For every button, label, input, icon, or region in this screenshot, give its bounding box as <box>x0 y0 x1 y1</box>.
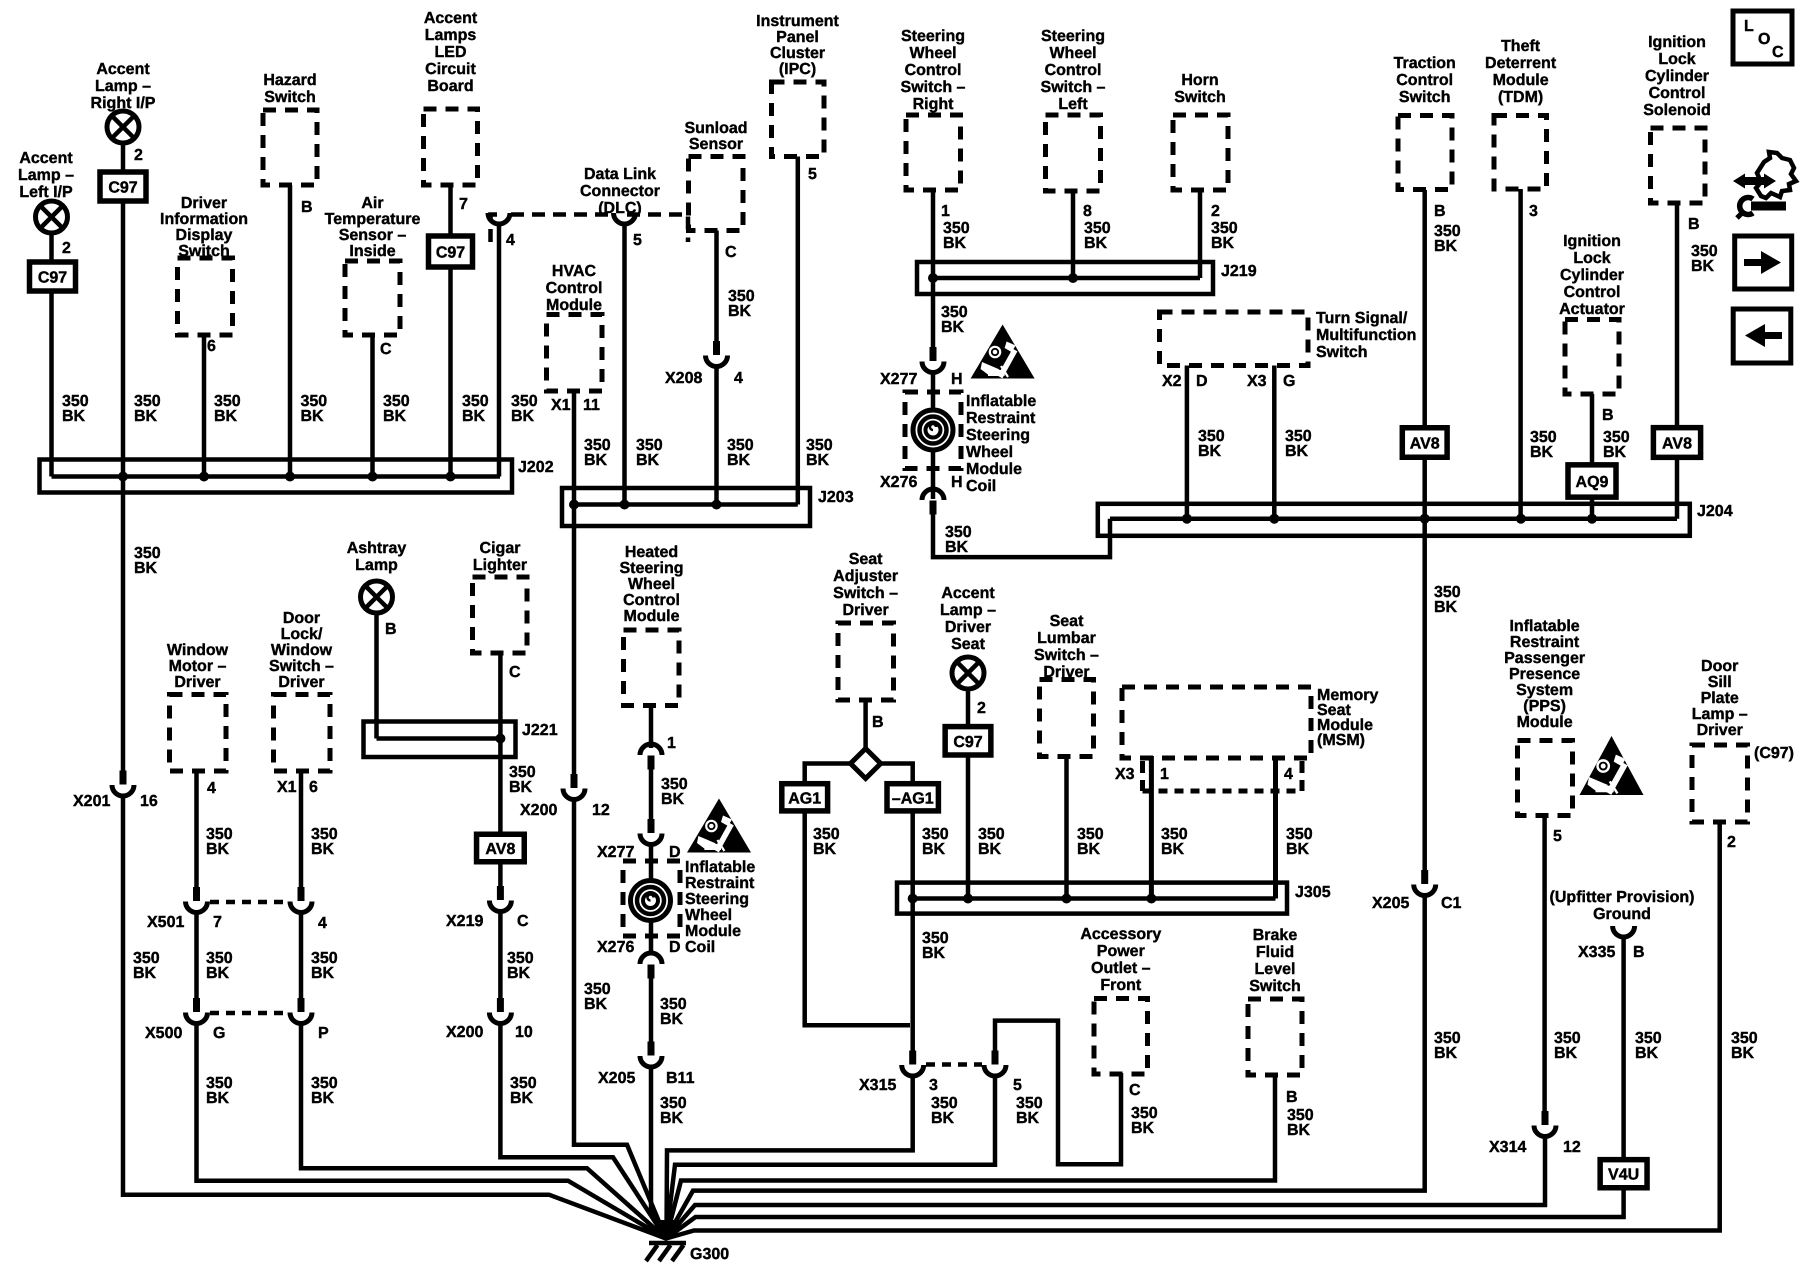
svg-text:BK: BK <box>206 965 230 982</box>
svg-text:Switch –: Switch – <box>1041 79 1106 96</box>
svg-text:BK: BK <box>1434 238 1458 255</box>
vehicle/wrench icon <box>1756 152 1796 198</box>
svg-text:(Upfitter Provision): (Upfitter Provision) <box>1550 889 1695 906</box>
svg-text:Air: Air <box>361 195 383 212</box>
svg-text:2: 2 <box>1211 203 1220 220</box>
svg-text:Door: Door <box>1701 658 1738 675</box>
svg-text:BK: BK <box>1434 599 1458 616</box>
wire: accent lamp right through J202 to X201 <box>121 143 126 172</box>
MSM X3 connector dashed sub-box <box>1140 761 1145 791</box>
svg-text:Inflatable: Inflatable <box>685 859 755 876</box>
svg-text:Information: Information <box>160 211 248 228</box>
wire: turn signal X3-G to J204 <box>1272 366 1277 519</box>
connector X315 dashed link <box>926 1062 982 1067</box>
component box: sunload sensor <box>689 157 744 231</box>
svg-text:Lamp: Lamp <box>355 557 398 574</box>
connector box AQ9 <box>1568 465 1616 497</box>
svg-text:G300: G300 <box>690 1246 729 1263</box>
svg-text:BK: BK <box>660 1011 684 1028</box>
svg-text:Driver: Driver <box>1043 664 1089 681</box>
wire: heated steering module to connector 1 <box>649 706 654 749</box>
svg-text:BK: BK <box>462 408 486 425</box>
svg-text:Control: Control <box>1564 284 1621 301</box>
svg-text:Deterrent: Deterrent <box>1485 55 1557 72</box>
svg-text:C: C <box>517 913 529 930</box>
svg-text:P: P <box>318 1025 329 1042</box>
component box: steering wheel control switch left <box>1046 115 1101 191</box>
svg-text:BK: BK <box>806 452 830 469</box>
svg-text:C97: C97 <box>108 180 137 197</box>
svg-text:(DLC): (DLC) <box>598 200 642 217</box>
svg-text:B: B <box>1688 216 1700 233</box>
svg-text:Cigar: Cigar <box>480 540 521 557</box>
lamp: accent lamp right I/P <box>107 111 139 143</box>
connector DLC pin4 <box>488 213 510 224</box>
SIR steering wheel module coil (upper) <box>913 410 953 450</box>
svg-text:BK: BK <box>1161 841 1185 858</box>
svg-text:Control: Control <box>623 592 680 609</box>
svg-text:BK: BK <box>206 841 230 858</box>
svg-text:BK: BK <box>584 452 608 469</box>
svg-text:B: B <box>1434 203 1446 220</box>
wire: -AG1 through J305 to X315-3 <box>910 810 915 1052</box>
connector X315 pin3 <box>909 1051 916 1065</box>
wire: PPS module to X314 <box>1542 816 1547 1117</box>
svg-text:LED: LED <box>435 44 467 61</box>
svg-text:Cylinder: Cylinder <box>1560 267 1624 284</box>
svg-text:Accessory: Accessory <box>1080 926 1161 943</box>
svg-text:12: 12 <box>592 802 610 819</box>
svg-text:X500: X500 <box>145 1025 182 1042</box>
svg-text:X335: X335 <box>1578 944 1615 961</box>
connector box AV8 (solenoid) <box>1653 428 1700 458</box>
component box: seat lumbar switch driver <box>1040 680 1094 757</box>
svg-text:X3: X3 <box>1115 766 1135 783</box>
svg-text:BK: BK <box>509 779 533 796</box>
svg-text:BK: BK <box>813 841 837 858</box>
svg-text:Lock: Lock <box>1573 250 1610 267</box>
svg-text:Lamp –: Lamp – <box>18 167 74 184</box>
svg-text:Sensor: Sensor <box>689 136 743 153</box>
svg-text:Lamp –: Lamp – <box>940 602 996 619</box>
svg-text:X205: X205 <box>1372 895 1409 912</box>
svg-text:BK: BK <box>311 841 335 858</box>
svg-text:X201: X201 <box>73 793 110 810</box>
component box: steering wheel control switch right <box>906 115 961 190</box>
svg-text:BK: BK <box>1077 841 1101 858</box>
ground symbol G300 <box>649 1241 686 1246</box>
connector X335 pinB (upfitter ground) <box>1613 926 1635 937</box>
svg-text:H: H <box>951 371 963 388</box>
connector X277 pinH <box>930 347 937 361</box>
svg-text:5: 5 <box>1553 828 1562 845</box>
svg-text:B: B <box>1286 1089 1298 1106</box>
svg-text:Sill: Sill <box>1708 674 1732 691</box>
svg-text:C97: C97 <box>436 245 465 262</box>
svg-text:B11: B11 <box>666 1070 695 1087</box>
svg-text:Right I/P: Right I/P <box>91 95 156 112</box>
svg-text:X200: X200 <box>446 1024 483 1041</box>
svg-text:X314: X314 <box>1489 1139 1526 1156</box>
svg-text:Instrument: Instrument <box>756 13 839 30</box>
svg-text:D: D <box>669 844 681 861</box>
wire: accent lamp left to J202 <box>49 233 54 262</box>
svg-text:BK: BK <box>1434 1045 1458 1062</box>
ground bus J219 <box>917 262 1213 294</box>
svg-text:Temperature: Temperature <box>325 211 421 228</box>
svg-text:5: 5 <box>808 166 817 183</box>
connector box C97 (accent right) <box>100 172 146 201</box>
svg-text:Lamp –: Lamp – <box>1692 706 1748 723</box>
svg-text:BK: BK <box>62 408 86 425</box>
svg-text:Seat: Seat <box>1050 613 1084 630</box>
component box: accent lamps LED circuit board <box>424 109 478 185</box>
svg-text:X205: X205 <box>598 1070 635 1087</box>
svg-text:J221: J221 <box>522 722 558 739</box>
svg-text:Data Link: Data Link <box>584 166 656 183</box>
svg-text:X1: X1 <box>277 779 297 796</box>
svg-text:BK: BK <box>206 1090 230 1107</box>
svg-text:B: B <box>301 199 313 216</box>
connector X277 pinD <box>648 819 655 833</box>
component box: window motor driver <box>170 695 227 772</box>
svg-text:Window: Window <box>271 642 333 659</box>
component box: inflatable restraint PPS module <box>1518 741 1573 816</box>
svg-text:Circuit: Circuit <box>425 61 476 78</box>
svg-text:Board: Board <box>427 78 473 95</box>
svg-text:Control: Control <box>546 280 603 297</box>
component box: door lock window switch driver <box>274 695 331 772</box>
svg-text:1: 1 <box>1160 766 1169 783</box>
svg-text:BK: BK <box>1016 1110 1040 1127</box>
connector X276 pinD <box>640 953 662 964</box>
connector box C97 (accent left) <box>30 262 76 291</box>
svg-text:V4U: V4U <box>1608 1167 1639 1184</box>
svg-text:5: 5 <box>1013 1077 1022 1094</box>
component box: ignition lock cylinder control solenoid <box>1651 128 1706 203</box>
connector box AV8 (cigar lighter) <box>477 834 525 862</box>
wire: SWCS-right through J219 to X277 <box>931 191 936 356</box>
svg-text:Actuator: Actuator <box>1559 301 1625 318</box>
svg-text:–AG1: –AG1 <box>892 790 934 807</box>
lamp: ashtray lamp <box>361 581 393 613</box>
svg-text:Multifunction: Multifunction <box>1316 327 1416 344</box>
svg-text:BK: BK <box>1286 841 1310 858</box>
svg-text:Hazard: Hazard <box>263 72 316 89</box>
svg-text:Fluid: Fluid <box>1256 944 1294 961</box>
svg-text:Presence: Presence <box>1509 666 1580 683</box>
component box: steering wheel module coil box upper <box>905 392 961 469</box>
svg-text:Ignition: Ignition <box>1648 34 1706 51</box>
connector X200 pin10 <box>497 998 504 1012</box>
svg-text:Module: Module <box>624 608 680 625</box>
svg-text:Steering: Steering <box>901 28 965 45</box>
component box: instrument panel cluster IPC <box>772 82 825 157</box>
svg-text:BK: BK <box>941 319 965 336</box>
legend box L O C <box>1733 11 1792 64</box>
svg-text:Driver: Driver <box>1697 722 1743 739</box>
connector box C97 (LED board) <box>429 236 473 267</box>
component box: seat adjuster switch driver <box>838 623 894 700</box>
svg-text:Lamp –: Lamp – <box>95 78 151 95</box>
svg-text:BK: BK <box>134 560 158 577</box>
wire: X277 through coil to X276 <box>931 372 936 499</box>
svg-text:Theft: Theft <box>1501 38 1541 55</box>
svg-text:C: C <box>509 664 521 681</box>
svg-text:Turn Signal/: Turn Signal/ <box>1316 310 1408 327</box>
wire: X205-B11 to ground fan <box>651 1066 666 1239</box>
svg-text:Power: Power <box>1097 943 1145 960</box>
connector X201 <box>120 771 127 785</box>
svg-text:BK: BK <box>507 965 531 982</box>
svg-text:Inflatable: Inflatable <box>1509 618 1579 635</box>
svg-text:Steering: Steering <box>619 560 683 577</box>
svg-text:D: D <box>1196 373 1208 390</box>
svg-text:BK: BK <box>311 965 335 982</box>
svg-text:(C97): (C97) <box>1754 745 1794 762</box>
svg-text:Heated: Heated <box>625 544 678 561</box>
svg-text:BK: BK <box>1084 235 1108 252</box>
connector box AG1 <box>782 784 828 811</box>
wire: X501-7 to X500-G <box>194 913 199 1007</box>
wire: AV8 to X219 <box>498 860 503 894</box>
svg-text:Coil: Coil <box>685 939 715 956</box>
svg-text:Cluster: Cluster <box>770 45 825 62</box>
connector X200 pin12 <box>571 774 578 788</box>
svg-text:11: 11 <box>583 397 600 414</box>
wire: door lock switch to X501-4 <box>299 771 304 895</box>
svg-text:Switch –: Switch – <box>833 585 898 602</box>
svg-text:AV8: AV8 <box>1662 436 1692 453</box>
connector box C97 (accent seat) <box>945 727 991 755</box>
component box: horn switch <box>1173 115 1228 190</box>
svg-text:BK: BK <box>943 235 967 252</box>
svg-text:HVAC: HVAC <box>552 263 597 280</box>
svg-text:Sensor –: Sensor – <box>339 227 407 244</box>
svg-text:5: 5 <box>633 232 642 249</box>
wire: accent lamp driver seat to C97 <box>966 690 971 729</box>
svg-text:BK: BK <box>1603 444 1627 461</box>
wire: DLC pin5 to J203 <box>622 224 627 505</box>
svg-text:BK: BK <box>1554 1045 1578 1062</box>
component box: accessory power outlet front <box>1094 999 1148 1075</box>
svg-text:Lighter: Lighter <box>473 557 527 574</box>
svg-text:Ashtray: Ashtray <box>347 540 407 557</box>
svg-text:Wheel: Wheel <box>628 576 675 593</box>
svg-text:Driver: Driver <box>181 195 227 212</box>
component box: theft deterrent module TDM <box>1494 116 1547 190</box>
svg-text:4: 4 <box>1284 766 1293 783</box>
svg-text:2: 2 <box>134 147 143 164</box>
svg-text:BK: BK <box>978 841 1002 858</box>
svg-text:Switch: Switch <box>1399 89 1451 106</box>
wire: V4U to ground fan <box>666 1186 1624 1239</box>
svg-text:1: 1 <box>667 735 676 752</box>
svg-text:4: 4 <box>318 915 327 932</box>
svg-text:J219: J219 <box>1221 263 1257 280</box>
wire: DLC pin4 to J202 <box>497 224 502 477</box>
component box: door sill plate lamp driver <box>1692 745 1748 822</box>
svg-text:B: B <box>385 621 397 638</box>
svg-text:BK: BK <box>1635 1045 1659 1062</box>
svg-text:Door: Door <box>283 610 320 627</box>
svg-text:Module: Module <box>966 461 1022 478</box>
svg-text:Ground: Ground <box>1593 906 1651 923</box>
lamp: accent lamp driver seat <box>952 657 984 689</box>
svg-text:4: 4 <box>506 232 515 249</box>
component box: hazard switch <box>263 110 317 185</box>
wire: X501-4 to X500-P <box>299 913 304 1007</box>
svg-text:Wheel: Wheel <box>1049 45 1096 62</box>
component box: ignition lock cylinder control actuator <box>1565 320 1619 395</box>
svg-text:Switch –: Switch – <box>1034 647 1099 664</box>
svg-text:(MSM): (MSM) <box>1317 732 1365 749</box>
svg-text:X219: X219 <box>446 913 483 930</box>
svg-text:(IPC): (IPC) <box>779 61 816 78</box>
svg-text:X2: X2 <box>1162 373 1182 390</box>
wire: X315-5 to ground fan <box>666 1076 995 1239</box>
svg-text:BK: BK <box>931 1110 955 1127</box>
ground bus J305 <box>897 883 1287 914</box>
svg-text:BK: BK <box>728 303 752 320</box>
wire: X208 to J203 <box>714 367 719 505</box>
svg-text:16: 16 <box>140 793 158 810</box>
svg-text:System: System <box>1516 682 1573 699</box>
svg-text:Driver: Driver <box>842 602 888 619</box>
ground bus J221 <box>364 722 516 758</box>
svg-text:BK: BK <box>1530 444 1554 461</box>
svg-text:Driver: Driver <box>174 674 220 691</box>
wire: seat adjuster to splice diamond <box>863 700 868 749</box>
svg-text:Control: Control <box>1649 85 1706 102</box>
svg-text:BK: BK <box>660 1110 684 1127</box>
wire: traction control through AV8 and J204 to X205 <box>1422 190 1427 874</box>
svg-text:4: 4 <box>734 370 743 387</box>
svg-text:Seat: Seat <box>849 551 883 568</box>
legend arrow box (right) <box>1735 236 1792 289</box>
svg-text:X277: X277 <box>597 844 634 861</box>
svg-text:Driver: Driver <box>945 619 991 636</box>
wire: MSM X3-1 to J305 <box>1149 756 1154 899</box>
component box: driver information display switch <box>178 258 233 335</box>
svg-text:X276: X276 <box>597 939 634 956</box>
wire: X500-G to ground fan <box>197 1024 667 1239</box>
svg-text:2: 2 <box>1727 834 1736 851</box>
wire: cigar lighter through J221 to AV8 <box>498 653 503 836</box>
svg-text:Switch: Switch <box>1249 978 1301 995</box>
wire: seat lumbar switch to J305 <box>1064 757 1069 899</box>
wire: IPC to J203 <box>796 157 801 505</box>
wire: X314-12 to ground fan <box>666 1136 1545 1239</box>
svg-text:Passenger: Passenger <box>1504 650 1585 667</box>
svg-text:BK: BK <box>1731 1045 1755 1062</box>
svg-text:3: 3 <box>1529 203 1538 220</box>
ground bus J202 <box>40 460 513 493</box>
svg-text:8: 8 <box>1083 203 1092 220</box>
component box: cigar lighter <box>473 577 528 653</box>
wire: C97 to J305 <box>966 753 971 899</box>
svg-text:Module: Module <box>1493 72 1549 89</box>
svg-text:G: G <box>1283 373 1295 390</box>
svg-text:BK: BK <box>1285 443 1309 460</box>
wire: hazard switch to J202 <box>288 185 293 477</box>
svg-text:X1: X1 <box>551 397 571 414</box>
svg-text:Seat: Seat <box>951 636 985 653</box>
ground bus J204 <box>1098 504 1690 536</box>
SIR steering wheel module coil (lower) <box>631 881 671 921</box>
svg-text:AG1: AG1 <box>788 790 821 807</box>
svg-text:BK: BK <box>311 1090 335 1107</box>
svg-text:BK: BK <box>301 408 325 425</box>
svg-text:J305: J305 <box>1295 884 1331 901</box>
svg-text:Steering: Steering <box>966 427 1030 444</box>
svg-text:Module: Module <box>1517 714 1573 731</box>
svg-text:X315: X315 <box>859 1077 896 1094</box>
svg-text:Left I/P: Left I/P <box>19 184 73 201</box>
wire: connector 1 to X277-D <box>649 766 654 825</box>
svg-text:7: 7 <box>213 914 222 931</box>
wire: TDM to J204 <box>1518 189 1523 519</box>
svg-text:2: 2 <box>62 240 71 257</box>
svg-text:(TDM): (TDM) <box>1498 89 1543 106</box>
svg-text:Module: Module <box>685 923 741 940</box>
wire: driver info switch to J202 <box>202 335 207 477</box>
wire: X200-12 to ground fan <box>574 800 666 1239</box>
connector X500 dashed link <box>210 1011 288 1016</box>
svg-text:Front: Front <box>1100 977 1142 994</box>
wire: X205-C1 to ground fan <box>666 896 1425 1239</box>
svg-text:J204: J204 <box>1697 503 1733 520</box>
svg-text:X200: X200 <box>520 802 557 819</box>
wire: door sill lamp to ground fan <box>666 822 1720 1239</box>
svg-text:Switch –: Switch – <box>269 658 334 675</box>
svg-text:Adjuster: Adjuster <box>833 568 898 585</box>
svg-text:B: B <box>872 714 884 731</box>
svg-text:Plate: Plate <box>1701 690 1739 707</box>
svg-text:C: C <box>1772 44 1784 61</box>
wire: X500-P to ground fan <box>301 1024 666 1239</box>
svg-text:Window: Window <box>167 642 229 659</box>
svg-text:D: D <box>669 939 681 956</box>
wire: X219-C to X200-10 <box>498 912 503 1007</box>
svg-text:Steering: Steering <box>685 891 749 908</box>
svg-text:BK: BK <box>1691 258 1715 275</box>
svg-text:12: 12 <box>1563 1139 1581 1156</box>
svg-text:BK: BK <box>1131 1120 1155 1137</box>
svg-text:L: L <box>1744 18 1754 35</box>
svg-text:BK: BK <box>661 791 685 808</box>
svg-text:Connector: Connector <box>580 183 660 200</box>
wire: brake fluid switch to ground fan <box>666 1074 1275 1239</box>
svg-text:Coil: Coil <box>966 478 996 495</box>
wire: window motor to X501-7 <box>194 771 199 895</box>
svg-text:Lock/: Lock/ <box>281 626 323 643</box>
wire: LED circuit board to J202 <box>448 185 453 236</box>
svg-text:C97: C97 <box>38 270 67 287</box>
svg-text:Horn: Horn <box>1181 72 1218 89</box>
svg-text:C: C <box>380 341 392 358</box>
wire: X200-10 to ground fan <box>500 1024 666 1239</box>
connector box -AG1 <box>887 784 938 811</box>
svg-text:BK: BK <box>510 1090 534 1107</box>
splice diamond (seat adjuster) <box>851 749 881 779</box>
svg-text:6: 6 <box>309 779 318 796</box>
wire: ashtray lamp to J221 <box>374 614 379 739</box>
svg-text:Outlet –: Outlet – <box>1091 960 1151 977</box>
svg-text:Control: Control <box>1045 62 1102 79</box>
svg-text:Accent: Accent <box>424 10 478 27</box>
ground fan node <box>654 1220 678 1242</box>
